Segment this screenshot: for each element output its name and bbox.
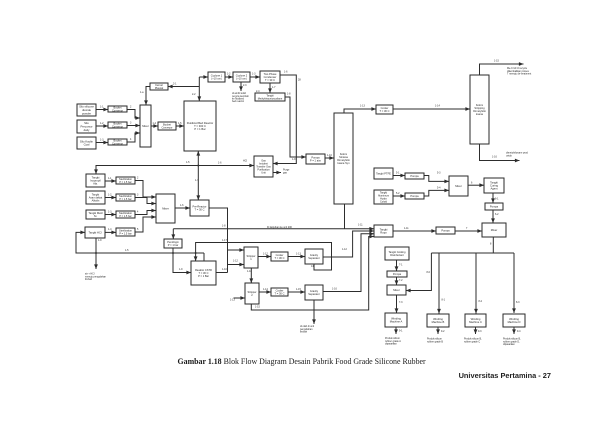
- svg-text:dipasarkan: dipasarkan: [385, 342, 397, 345]
- svg-text:1-14: 1-14: [263, 288, 268, 291]
- svg-text:Mixer: Mixer: [142, 124, 149, 128]
- svg-text:1-11: 1-11: [404, 227, 409, 230]
- svg-text:P = 1.5 bar: P = 1.5 bar: [119, 232, 131, 235]
- svg-text:Si.: Si.: [94, 214, 97, 218]
- svg-text:Machine B: Machine B: [432, 320, 445, 324]
- svg-text:Plascal: Plascal: [155, 86, 164, 90]
- svg-text:Pompa: Pompa: [441, 228, 450, 232]
- svg-text:untuk: untuk: [506, 154, 513, 157]
- svg-text:1-12: 1-12: [263, 253, 268, 256]
- svg-text:rubber grade C: rubber grade C: [464, 340, 480, 343]
- svg-text:Methyltriacetoxysilane: Methyltriacetoxysilane: [258, 97, 283, 100]
- svg-text:ksana Syn: ksana Syn: [337, 161, 350, 165]
- svg-text:Coloid: Coloid: [380, 200, 388, 203]
- svg-text:Conveyor: Conveyor: [112, 141, 123, 145]
- svg-text:HCl: HCl: [243, 160, 247, 163]
- svg-text:1-13: 1-13: [296, 253, 301, 256]
- svg-text:Separator: Separator: [308, 256, 320, 260]
- svg-text:1-12: 1-12: [233, 260, 238, 263]
- svg-text:limbah: limbah: [300, 330, 308, 333]
- svg-text:1-15: 1-15: [296, 288, 301, 291]
- svg-text:Pompa: Pompa: [410, 174, 419, 178]
- svg-text:1-11: 1-11: [358, 224, 363, 227]
- svg-text:Mixer: Mixer: [162, 206, 169, 210]
- svg-text:Conveyor: Conveyor: [112, 124, 123, 128]
- svg-text:powder: powder: [82, 111, 91, 115]
- svg-text:Unit: Unit: [261, 171, 266, 174]
- svg-text:Machine C: Machine C: [469, 320, 482, 324]
- svg-text:Tangki PTFE: Tangki PTFE: [376, 171, 391, 175]
- svg-text:P = 1.5 bar: P = 1.5 bar: [119, 198, 131, 201]
- svg-text:1-14: 1-14: [435, 105, 440, 108]
- svg-text:P = 1 Bar: P = 1 Bar: [198, 274, 209, 278]
- svg-text:daily: daily: [84, 128, 90, 132]
- svg-text:Alkalin: Alkalin: [92, 198, 100, 202]
- svg-text:Agent: Agent: [490, 187, 497, 191]
- svg-text:Pompa: Pompa: [393, 272, 402, 276]
- svg-text:T menuju de-treatment: T menuju de-treatment: [507, 72, 531, 75]
- svg-text:T = 30 C: T = 30 C: [380, 109, 390, 113]
- svg-text:1-11: 1-11: [247, 270, 252, 273]
- svg-text:1-15: 1-15: [255, 306, 260, 309]
- svg-text:Mixer: Mixer: [455, 184, 462, 188]
- svg-text:rubber grade B: rubber grade B: [427, 340, 443, 343]
- svg-text:T = 30 C: T = 30 C: [265, 78, 275, 82]
- svg-text:1-13: 1-13: [230, 299, 235, 302]
- svg-text:dipasarkan: dipasarkan: [503, 343, 515, 346]
- svg-text:Mixer: Mixer: [393, 288, 400, 292]
- svg-text:P = 1 bar: P = 1 bar: [168, 243, 179, 247]
- svg-text:Machine A: Machine A: [390, 320, 403, 324]
- svg-text:P = 1.5 bar: P = 1.5 bar: [119, 181, 131, 184]
- svg-text:1-17: 1-17: [222, 239, 227, 242]
- svg-text:P = 1 Bar: P = 1 Bar: [194, 127, 205, 131]
- svg-text:Universitas Pertamina - 27: Universitas Pertamina - 27: [459, 371, 551, 380]
- svg-text:T = 30 C: T = 30 C: [275, 256, 285, 260]
- svg-text:T = 30 C: T = 30 C: [195, 207, 205, 211]
- svg-text:P = 1 atm: P = 1 atm: [310, 158, 321, 162]
- svg-text:1-16: 1-16: [332, 288, 337, 291]
- svg-text:Conveyor: Conveyor: [112, 108, 123, 112]
- svg-text:1-10: 1-10: [327, 154, 332, 157]
- svg-text:1-15: 1-15: [494, 60, 499, 63]
- svg-text:Coal: Coal: [84, 143, 90, 147]
- svg-text:T = 30 C: T = 30 C: [275, 291, 285, 295]
- svg-text:1-12: 1-12: [342, 248, 347, 251]
- svg-text:Disinfectant: Disinfectant: [390, 253, 404, 257]
- svg-text:Pompa: Pompa: [490, 204, 499, 208]
- svg-text:Roqn: Roqn: [380, 231, 387, 235]
- svg-text:Tangki HCl: Tangki HCl: [89, 230, 102, 234]
- svg-text:limbah: limbah: [85, 278, 93, 281]
- svg-text:Di lanjutkan ke unit 200: Di lanjutkan ke unit 200: [267, 226, 293, 229]
- svg-text:P = 1.5 bar: P = 1.5 bar: [119, 215, 131, 218]
- svg-text:(>10 um): (>10 um): [236, 76, 247, 80]
- svg-text:1-16: 1-16: [492, 156, 497, 159]
- svg-text:bed reactor: bed reactor: [232, 100, 244, 103]
- svg-text:Conveyor: Conveyor: [161, 125, 172, 129]
- svg-text:Machine D: Machine D: [508, 320, 521, 324]
- svg-text:Mixer: Mixer: [491, 228, 498, 232]
- svg-text:1-13: 1-13: [360, 105, 365, 108]
- svg-text:Gambar 1.18 Blok Flow Diagram: Gambar 1.18 Blok Flow Diagram Desain Pab…: [178, 357, 427, 366]
- svg-text:1-10: 1-10: [222, 268, 227, 271]
- svg-text:ksana: ksana: [476, 112, 483, 116]
- svg-text:Separator: Separator: [308, 292, 320, 296]
- svg-text:Pompa: Pompa: [410, 194, 419, 198]
- svg-text:(>10 um): (>10 um): [211, 76, 222, 80]
- svg-text:Ala.: Ala.: [93, 182, 98, 186]
